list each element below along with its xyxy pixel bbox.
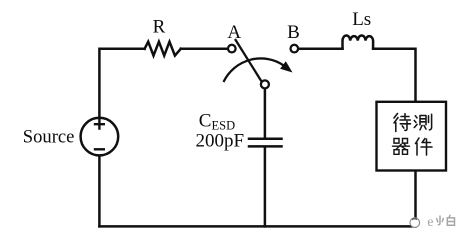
capacitor CESD bottom plate [249,145,282,148]
source circle [81,118,119,156]
source plus sign [95,120,104,129]
capacitor CESD top plate [249,138,282,141]
wire DUT box bottom to ground rail [414,171,417,226]
svg-text:B: B [287,22,300,43]
svg-text:e: e [427,215,433,230]
watermark char 白 [447,215,454,225]
switch pivot circle [261,80,269,88]
svg-text:200pF: 200pF [196,130,245,151]
wire capacitor bottom plate to ground rail [264,148,267,227]
node A circle [228,45,236,53]
node B circle [291,45,299,53]
DUT label char 测 [414,114,431,130]
DUT box [377,102,447,171]
svg-text:R: R [153,17,166,38]
wire node B to inductor [299,48,343,51]
watermark char 小 [437,216,444,225]
switch arm from node A area to pivot [236,40,262,81]
watermark logo [402,213,420,227]
svg-text:A: A [227,22,241,43]
switch throw arrow arc [224,58,284,81]
wire source bottom to ground rail [98,156,101,226]
bottom ground rail wire [99,225,415,228]
DUT label char 件 [416,138,433,155]
wire switch pivot down to capacitor top plate [264,90,267,138]
resistor R [145,42,181,56]
switch arrow head [280,61,292,72]
wire top-left: left rail top + top segment to resistor [99,49,144,118]
wire resistor to node A [181,48,228,51]
source minus sign [95,148,104,150]
inductor Ls [343,35,374,48]
svg-text:Ls: Ls [352,9,371,30]
svg-text:Source: Source [23,127,75,148]
DUT label char 待 [394,114,411,132]
wire inductor to right corner down to DUT box [373,49,415,101]
DUT label char 器 [393,139,410,155]
